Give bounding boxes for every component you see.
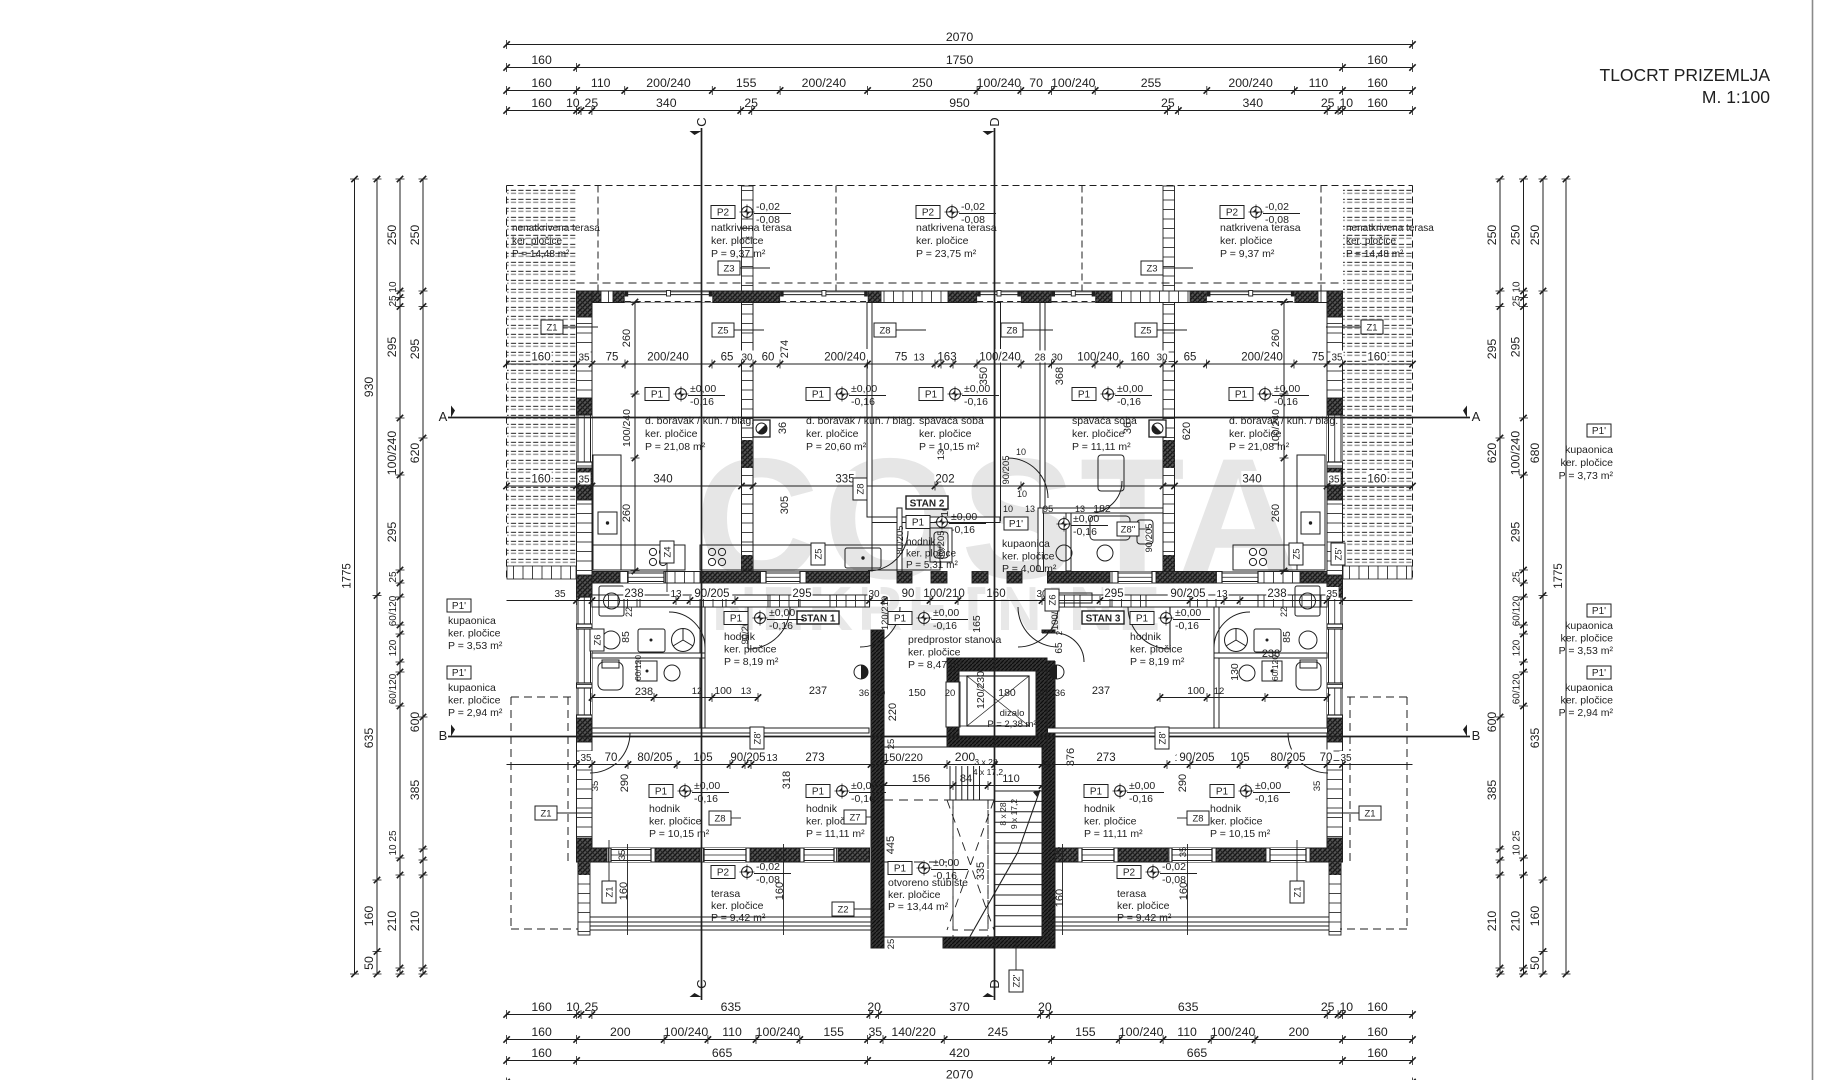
svg-text:60: 60 xyxy=(762,352,775,364)
svg-text:100/240: 100/240 xyxy=(385,431,399,476)
svg-text:60/120: 60/120 xyxy=(388,595,399,626)
dim right total 1775 xyxy=(1565,179,1567,974)
svg-text:295: 295 xyxy=(1509,337,1523,358)
svg-text:35: 35 xyxy=(617,850,628,861)
svg-text:318: 318 xyxy=(781,771,793,789)
svg-text:30: 30 xyxy=(868,589,880,600)
svg-text:10: 10 xyxy=(566,1000,580,1014)
overhang dashed outline xyxy=(511,697,1407,929)
svg-text:110: 110 xyxy=(1177,1025,1197,1039)
dim left 930-635-160-50 xyxy=(376,179,378,974)
svg-text:665: 665 xyxy=(1187,1046,1208,1060)
svg-text:P1: P1 xyxy=(812,787,825,798)
drain dots xyxy=(753,420,770,437)
svg-text:110: 110 xyxy=(722,1025,742,1039)
window dim col left xyxy=(634,302,636,571)
svg-text:680: 680 xyxy=(1528,443,1542,464)
svg-text:P = 2,94 m²: P = 2,94 m² xyxy=(1559,707,1614,719)
svg-text:35: 35 xyxy=(1312,781,1323,792)
svg-text:250: 250 xyxy=(385,225,399,246)
svg-text:200/240: 200/240 xyxy=(1241,352,1283,364)
svg-text:P = 23,75 m²: P = 23,75 m² xyxy=(916,248,977,260)
dim top row walls xyxy=(507,110,1413,112)
svg-text:B: B xyxy=(1472,728,1481,743)
svg-text:180: 180 xyxy=(998,687,1016,699)
svg-text:±0,00: ±0,00 xyxy=(851,383,877,395)
svg-text:210: 210 xyxy=(1485,911,1499,932)
svg-text:35: 35 xyxy=(578,353,590,364)
svg-text:13: 13 xyxy=(766,753,778,764)
zbox Z1 topleft xyxy=(541,320,563,334)
svg-text:D: D xyxy=(987,979,1002,988)
svg-text:ker. pločice: ker. pločice xyxy=(1210,816,1263,828)
svg-text:±0,00: ±0,00 xyxy=(1073,513,1099,525)
svg-text:kupaonica: kupaonica xyxy=(1565,444,1613,456)
zbox Z1 bottomright xyxy=(1359,806,1381,820)
kitchen left counter xyxy=(593,455,685,570)
svg-text:160: 160 xyxy=(1528,906,1542,927)
svg-text:±0,00: ±0,00 xyxy=(769,607,795,619)
svg-text:-0,16: -0,16 xyxy=(964,396,988,408)
partition bedroom1 right wall xyxy=(995,303,1001,521)
svg-text:ker. pločice: ker. pločice xyxy=(448,628,501,640)
mid wall band xyxy=(592,572,870,584)
svg-text:-0,08: -0,08 xyxy=(1162,874,1186,886)
svg-text:ker. pločice: ker. pločice xyxy=(649,816,702,828)
svg-text:100/210: 100/210 xyxy=(923,588,965,600)
svg-text:nenatkrivena terasa: nenatkrivena terasa xyxy=(512,223,600,234)
svg-text:665: 665 xyxy=(712,1046,733,1060)
zbox Z2 stair left xyxy=(832,902,854,916)
svg-text:P = 8,19 m²: P = 8,19 m² xyxy=(1130,656,1185,668)
svg-text:±0,00: ±0,00 xyxy=(1274,383,1300,395)
zbox Z8p hall right xyxy=(1155,727,1169,749)
svg-text:22: 22 xyxy=(624,607,634,617)
svg-text:290: 290 xyxy=(1177,774,1189,792)
svg-text:25: 25 xyxy=(585,96,599,110)
dim row upper y364 xyxy=(507,363,1413,365)
svg-text:376: 376 xyxy=(1065,748,1077,766)
svg-text:160: 160 xyxy=(1367,53,1388,67)
svg-text:kupaonica: kupaonica xyxy=(1002,538,1050,550)
dim top row total 2070 xyxy=(507,44,1413,46)
svg-text:260: 260 xyxy=(621,504,633,522)
interior wall left apartments xyxy=(742,303,754,584)
left exterior wall with windows xyxy=(577,291,593,862)
svg-text:Z1: Z1 xyxy=(1366,323,1377,334)
svg-text:90/205: 90/205 xyxy=(1179,752,1214,764)
svg-text:295: 295 xyxy=(1104,588,1123,600)
svg-text:120: 120 xyxy=(1512,639,1523,656)
label STAN 2 xyxy=(906,496,948,509)
ticks row y600 xyxy=(573,597,579,603)
svg-text:ker. pločice: ker. pločice xyxy=(1117,900,1170,912)
svg-text:C: C xyxy=(694,979,709,988)
dim bottom row openings xyxy=(507,1039,1413,1041)
svg-text:85: 85 xyxy=(1281,631,1293,643)
svg-text:P1: P1 xyxy=(1216,787,1229,798)
svg-text:TLOCRT PRIZEMLJA: TLOCRT PRIZEMLJA xyxy=(1600,65,1771,85)
stan3 bath partition xyxy=(1214,607,1219,728)
svg-text:620: 620 xyxy=(408,443,422,464)
svg-text:90/205: 90/205 xyxy=(1170,588,1205,600)
zbox Z5 right xyxy=(1135,323,1157,337)
svg-text:10 25: 10 25 xyxy=(388,830,399,855)
svg-text:65: 65 xyxy=(1184,352,1197,364)
room label spavaca2 xyxy=(1072,388,1096,401)
label hodnik stan3 mid xyxy=(1084,785,1108,798)
svg-text:160: 160 xyxy=(1367,1025,1388,1039)
svg-text:ker. pločice: ker. pločice xyxy=(711,235,764,247)
svg-text:hodnik: hodnik xyxy=(1130,631,1162,643)
svg-text:ker. pločice: ker. pločice xyxy=(512,236,562,247)
window dim col right xyxy=(1283,302,1285,571)
svg-text:ker. pločice: ker. pločice xyxy=(711,900,764,912)
svg-text:210: 210 xyxy=(385,911,399,932)
svg-text:155: 155 xyxy=(736,76,757,90)
svg-text:P2: P2 xyxy=(1123,868,1136,879)
zbox Z8 center xyxy=(1001,323,1023,337)
dim row y486 xyxy=(507,485,1413,487)
svg-text:±0,00: ±0,00 xyxy=(933,857,959,869)
svg-text:200/240: 200/240 xyxy=(1228,76,1273,90)
svg-text:P = 9,37 m²: P = 9,37 m² xyxy=(711,248,766,260)
zbox Z1 topright xyxy=(1361,320,1383,334)
svg-text:-0,02: -0,02 xyxy=(756,861,780,873)
svg-text:Z7: Z7 xyxy=(849,813,860,824)
center bath fixtures xyxy=(930,516,1153,562)
svg-text:335: 335 xyxy=(975,862,987,880)
svg-text:340: 340 xyxy=(1242,474,1261,486)
svg-text:160: 160 xyxy=(531,352,550,364)
svg-text:±0,00: ±0,00 xyxy=(1175,607,1201,619)
terrace divider wall right xyxy=(1163,186,1175,291)
svg-text:P = 3,53 m²: P = 3,53 m² xyxy=(448,640,503,652)
svg-text:600: 600 xyxy=(1485,712,1499,733)
svg-text:25: 25 xyxy=(886,939,897,950)
stair outline xyxy=(884,747,1042,937)
svg-text:160: 160 xyxy=(1054,889,1066,907)
stan1 bath partition xyxy=(700,607,705,728)
svg-text:-0,08: -0,08 xyxy=(756,874,780,886)
svg-text:±0,00: ±0,00 xyxy=(1117,383,1143,395)
svg-text:200/240: 200/240 xyxy=(824,352,866,364)
hatched terrace right (nenatkrivena) xyxy=(1343,187,1412,566)
svg-text:100/240: 100/240 xyxy=(979,352,1021,364)
svg-text:105: 105 xyxy=(693,752,712,764)
zbox Z5 kitchen center xyxy=(811,543,825,565)
svg-text:25: 25 xyxy=(886,739,897,750)
svg-text:250: 250 xyxy=(408,225,422,246)
svg-text:-0,16: -0,16 xyxy=(769,620,793,632)
svg-text:P = 14,48 m²: P = 14,48 m² xyxy=(1346,249,1404,260)
svg-text:Z1: Z1 xyxy=(546,323,557,334)
top exterior wall band with windows xyxy=(577,282,1343,284)
zbox Z1 bottomleft2 xyxy=(602,881,616,903)
svg-text:natkrivena terasa: natkrivena terasa xyxy=(1220,222,1301,234)
stan1 hall partition xyxy=(592,728,869,733)
room label boravak right xyxy=(1229,388,1253,401)
svg-text:22: 22 xyxy=(1279,607,1289,617)
svg-text:635: 635 xyxy=(1178,1000,1199,1014)
svg-text:±0,00: ±0,00 xyxy=(851,780,877,792)
room label natkrivena right xyxy=(1220,206,1244,219)
svg-text:274: 274 xyxy=(779,340,791,358)
svg-text:ker. pločice: ker. pločice xyxy=(1002,551,1055,563)
svg-text:Z5: Z5 xyxy=(1140,326,1151,337)
zbox Z8 small center xyxy=(1045,589,1059,611)
svg-text:100: 100 xyxy=(714,685,732,697)
svg-text:P = 11,11 m²: P = 11,11 m² xyxy=(1072,441,1131,453)
svg-text:spavaća soba: spavaća soba xyxy=(919,415,984,427)
svg-text:1775: 1775 xyxy=(342,563,354,589)
svg-text:P = 20,60 m²: P = 20,60 m² xyxy=(806,441,867,453)
interior wall right apartments xyxy=(1163,303,1175,584)
svg-text:P2: P2 xyxy=(717,208,730,219)
svg-text:Z8: Z8 xyxy=(856,483,867,494)
svg-text:B: B xyxy=(439,728,448,743)
svg-text:60/120: 60/120 xyxy=(1512,673,1523,704)
svg-text:25: 25 xyxy=(1512,571,1523,583)
svg-text:420: 420 xyxy=(949,1046,970,1060)
stan1 bath fixtures xyxy=(598,586,695,690)
svg-text:950: 950 xyxy=(949,96,970,110)
svg-text:160: 160 xyxy=(1130,352,1149,364)
svg-text:-0,16: -0,16 xyxy=(851,793,875,805)
lower rooms top wall xyxy=(592,595,870,607)
svg-text:28: 28 xyxy=(1034,353,1046,364)
svg-text:-0,16: -0,16 xyxy=(951,524,975,536)
zbox Z5 left xyxy=(712,323,734,337)
svg-text:-0,16: -0,16 xyxy=(690,396,714,408)
zbox Z1 bottomleft xyxy=(535,806,557,820)
svg-text:160: 160 xyxy=(986,588,1005,600)
partition bedroom1 bottom xyxy=(872,517,1000,523)
svg-text:Z8: Z8 xyxy=(879,326,890,337)
svg-text:25: 25 xyxy=(1321,1000,1335,1014)
svg-text:P = 10,15 m²: P = 10,15 m² xyxy=(919,441,980,453)
svg-text:620: 620 xyxy=(1181,422,1193,440)
svg-text:Z3: Z3 xyxy=(1146,264,1157,275)
svg-text:nenatkrivena terasa: nenatkrivena terasa xyxy=(1346,223,1434,234)
svg-text:220: 220 xyxy=(887,703,899,721)
kitchen left stove xyxy=(649,548,666,565)
svg-text:terasa: terasa xyxy=(1117,888,1146,900)
svg-text:160: 160 xyxy=(531,1000,552,1014)
svg-text:200/240: 200/240 xyxy=(647,352,689,364)
svg-text:-0,16: -0,16 xyxy=(1175,620,1199,632)
svg-text:Z6: Z6 xyxy=(1048,594,1059,605)
room label spavaca1 xyxy=(919,388,943,401)
bottom apartment wall xyxy=(577,848,870,862)
svg-text:Z1: Z1 xyxy=(605,886,616,897)
svg-text:4 x 17,2: 4 x 17,2 xyxy=(973,767,1004,777)
svg-text:36: 36 xyxy=(1055,688,1066,699)
svg-text:25: 25 xyxy=(1321,96,1335,110)
svg-text:P = 3,53 m²: P = 3,53 m² xyxy=(1559,645,1614,657)
right exterior wall with windows xyxy=(1327,291,1343,862)
svg-text:kupaonica: kupaonica xyxy=(1565,682,1613,694)
svg-text:Z8: Z8 xyxy=(1192,814,1203,825)
room label kupaonica right-margin1 xyxy=(1587,424,1611,437)
svg-text:635: 635 xyxy=(1528,728,1542,749)
svg-text:65: 65 xyxy=(1054,642,1065,654)
svg-text:100/240: 100/240 xyxy=(621,409,633,447)
svg-text:2070: 2070 xyxy=(946,30,974,44)
hatched terrace left (nenatkrivena) xyxy=(507,187,576,566)
svg-text:ker. pločice: ker. pločice xyxy=(1084,816,1137,828)
svg-text:9 x 17,2: 9 x 17,2 xyxy=(1009,799,1019,830)
svg-text:P1': P1' xyxy=(1592,606,1606,617)
svg-text:C: C xyxy=(694,117,709,126)
svg-text:35: 35 xyxy=(580,753,592,764)
svg-text:60/120: 60/120 xyxy=(633,655,643,681)
zbox Z8p hall xyxy=(750,727,764,749)
svg-text:160: 160 xyxy=(1367,474,1386,486)
svg-text:ker. pločice: ker. pločice xyxy=(906,549,956,560)
watermark logo text xyxy=(695,423,1304,644)
dim left total 1775 xyxy=(354,179,356,974)
svg-text:25: 25 xyxy=(585,1000,599,1014)
page border right xyxy=(1812,0,1814,1080)
zbox Z6 stan1 bath xyxy=(590,629,604,651)
zbox Z8 bed1 xyxy=(853,478,867,500)
kitchen center counter xyxy=(700,545,940,570)
svg-text:ker. pločice: ker. pločice xyxy=(908,647,961,659)
dim row y600 xyxy=(507,600,1413,602)
terrace slab lines left xyxy=(578,862,871,930)
svg-text:100/240: 100/240 xyxy=(1509,431,1523,476)
stan3 hall partition xyxy=(1048,728,1328,733)
zbox Z8pp center xyxy=(1117,522,1139,536)
svg-text:P = 9,42 m²: P = 9,42 m² xyxy=(1117,912,1172,924)
core east wall xyxy=(1042,630,1055,948)
svg-text:95: 95 xyxy=(1043,504,1054,515)
label STAN 3 xyxy=(1082,611,1124,624)
svg-text:160: 160 xyxy=(531,53,552,67)
svg-text:100: 100 xyxy=(1187,685,1205,697)
svg-text:635: 635 xyxy=(362,728,376,749)
svg-text:Z8': Z8' xyxy=(753,731,764,744)
svg-text:250: 250 xyxy=(1528,225,1542,246)
svg-text:335: 335 xyxy=(835,474,854,486)
label hodnik stan1 upper xyxy=(724,612,748,625)
svg-text:90: 90 xyxy=(902,588,915,600)
svg-text:P = 4,00 m²: P = 4,00 m² xyxy=(1002,563,1057,575)
svg-text:260: 260 xyxy=(1270,329,1282,347)
svg-text:Z5': Z5' xyxy=(1334,547,1345,560)
svg-text:2: 2 xyxy=(1055,630,1064,635)
svg-text:160: 160 xyxy=(531,96,552,110)
svg-text:P = 9,37 m²: P = 9,37 m² xyxy=(1220,248,1275,260)
svg-text:150: 150 xyxy=(908,687,926,699)
svg-text:dizalo: dizalo xyxy=(1000,708,1025,719)
svg-text:10 25: 10 25 xyxy=(1512,830,1523,855)
svg-text:35: 35 xyxy=(590,781,601,792)
svg-text:445: 445 xyxy=(885,836,897,854)
zbox Z2 stair bottom xyxy=(1009,970,1023,992)
terrace dashed boundary top xyxy=(507,186,1413,581)
svg-text:d. boravak / kuh. / blag.: d. boravak / kuh. / blag. xyxy=(806,415,915,427)
partition bedroom1 left wall xyxy=(867,303,872,518)
svg-text:90/205: 90/205 xyxy=(694,588,729,600)
svg-text:natkrivena terasa: natkrivena terasa xyxy=(711,222,792,234)
svg-text:ker. pločice: ker. pločice xyxy=(806,428,859,440)
room label natkrivena center xyxy=(916,206,940,219)
zbox Z5 kitchen right xyxy=(1289,543,1303,565)
kitchen right counter xyxy=(1233,455,1325,570)
svg-text:305: 305 xyxy=(779,496,791,514)
svg-text:25: 25 xyxy=(744,96,758,110)
svg-text:340: 340 xyxy=(1243,96,1264,110)
svg-text:ker. pločice: ker. pločice xyxy=(919,428,972,440)
svg-text:200/240: 200/240 xyxy=(646,76,691,90)
svg-text:160: 160 xyxy=(618,882,630,900)
svg-text:160: 160 xyxy=(531,1046,552,1060)
dim top row openings xyxy=(507,90,1413,92)
svg-text:160: 160 xyxy=(1367,76,1388,90)
svg-text:-0,02: -0,02 xyxy=(756,201,780,213)
svg-text:90/205: 90/205 xyxy=(1144,523,1155,552)
svg-text:P1: P1 xyxy=(1078,390,1091,401)
svg-text:ker. pločice: ker. pločice xyxy=(1220,235,1273,247)
room label natkrivena left xyxy=(711,206,735,219)
terrace edge wall bottom-left xyxy=(578,862,590,935)
svg-text:A: A xyxy=(1472,409,1481,424)
svg-text:155: 155 xyxy=(1075,1025,1096,1039)
svg-text:160: 160 xyxy=(531,1025,552,1039)
svg-text:13: 13 xyxy=(913,353,925,364)
room label boravak left xyxy=(645,388,669,401)
svg-text:-0,16: -0,16 xyxy=(1129,793,1153,805)
svg-text:ker. pločice: ker. pločice xyxy=(1560,695,1613,707)
svg-text:Z2: Z2 xyxy=(837,905,848,916)
svg-text:P = 2,94 m²: P = 2,94 m² xyxy=(448,707,503,719)
svg-text:STAN 2: STAN 2 xyxy=(910,499,945,510)
svg-text:295: 295 xyxy=(385,522,399,543)
svg-text:terasa: terasa xyxy=(711,888,740,900)
svg-text:P = 3,73 m²: P = 3,73 m² xyxy=(1559,470,1614,482)
svg-text:ker. pločice: ker. pločice xyxy=(1560,633,1613,645)
svg-text:100/240: 100/240 xyxy=(1119,1025,1164,1039)
svg-text:160: 160 xyxy=(531,76,552,90)
svg-text:70: 70 xyxy=(1320,752,1333,764)
svg-text:200: 200 xyxy=(1289,1025,1310,1039)
svg-text:160: 160 xyxy=(531,474,550,486)
svg-text:273: 273 xyxy=(1096,752,1115,764)
ticks row y760 xyxy=(573,761,579,767)
svg-text:d. boravak / kuh. / blag.: d. boravak / kuh. / blag. xyxy=(1229,415,1338,427)
svg-text:P = 11,11 m²: P = 11,11 m² xyxy=(1084,828,1143,840)
svg-text:otvoreno stubište: otvoreno stubište xyxy=(888,877,968,889)
svg-text:P2: P2 xyxy=(717,868,730,879)
svg-text:80/205: 80/205 xyxy=(895,525,906,554)
svg-text:273: 273 xyxy=(805,752,824,764)
svg-text:368: 368 xyxy=(1054,367,1066,385)
svg-text:P = 13,44 m²: P = 13,44 m² xyxy=(888,901,949,913)
svg-text:70: 70 xyxy=(605,752,618,764)
svg-text:620: 620 xyxy=(1485,443,1499,464)
svg-text:60/120: 60/120 xyxy=(388,673,399,704)
svg-text:140/220: 140/220 xyxy=(891,1025,936,1039)
svg-text:-0,02: -0,02 xyxy=(1265,201,1289,213)
terrace slab lines right xyxy=(1048,862,1341,930)
svg-text:75: 75 xyxy=(895,352,908,364)
svg-text:P1: P1 xyxy=(925,390,938,401)
label hodnik stan3 upper xyxy=(1130,612,1154,625)
door arcs xyxy=(590,458,1328,773)
svg-text:25 10: 25 10 xyxy=(388,281,399,306)
